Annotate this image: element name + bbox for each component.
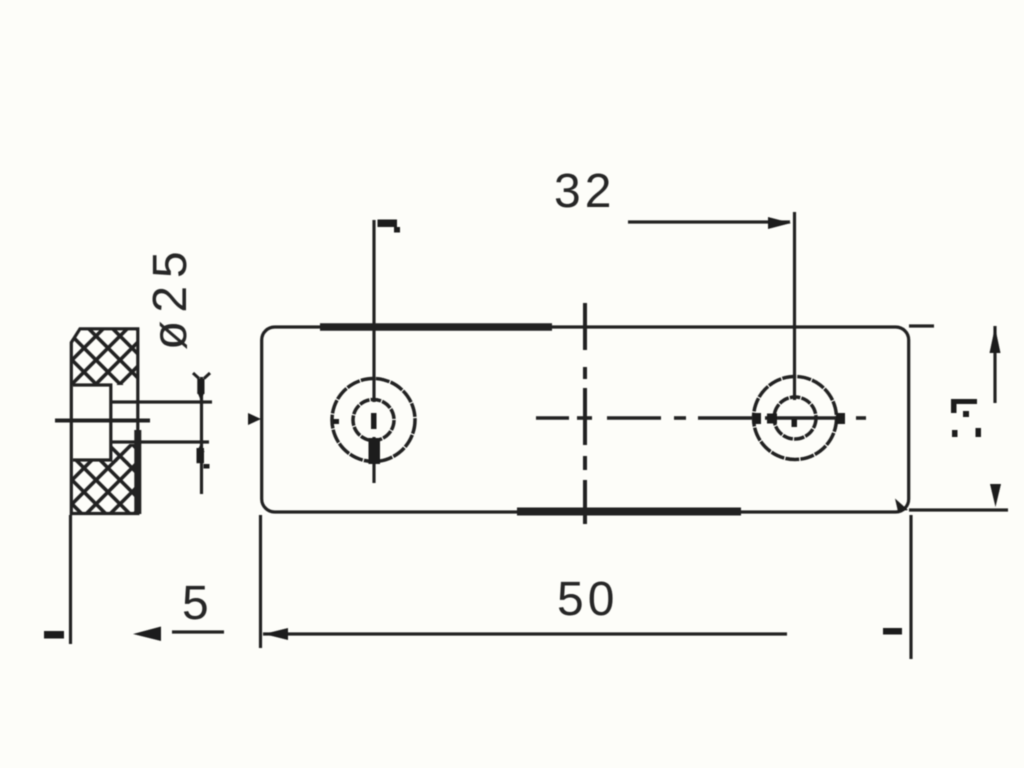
svg-text:5: 5 — [182, 577, 213, 630]
svg-text:32: 32 — [554, 165, 615, 218]
svg-text:50: 50 — [557, 573, 618, 626]
svg-text:ø25: ø25 — [144, 243, 197, 350]
